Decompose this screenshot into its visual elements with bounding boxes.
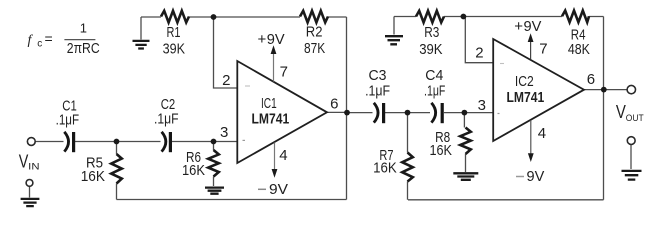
svg-text:9V: 9V	[267, 31, 285, 48]
svg-text:=: =	[45, 31, 53, 47]
svg-text:c: c	[37, 39, 42, 50]
svg-text:V: V	[19, 152, 29, 172]
svg-text:IN: IN	[28, 162, 39, 173]
svg-text:1: 1	[80, 20, 87, 35]
svg-text:OUT: OUT	[626, 113, 644, 123]
svg-text:48K: 48K	[568, 41, 590, 58]
svg-text:4: 4	[279, 147, 287, 164]
svg-text:16K: 16K	[81, 168, 105, 185]
svg-text:R3: R3	[424, 24, 439, 41]
svg-text:LM741: LM741	[252, 111, 290, 128]
svg-text:2: 2	[475, 45, 483, 62]
svg-text:.1μF: .1μF	[424, 83, 445, 100]
svg-text:.1μF: .1μF	[154, 111, 179, 128]
svg-text:9V: 9V	[524, 18, 542, 35]
svg-text:LM741: LM741	[507, 89, 545, 106]
svg-text:IC1: IC1	[261, 95, 277, 112]
svg-text:39K: 39K	[419, 41, 442, 58]
svg-text:V: V	[616, 102, 626, 122]
svg-text:+: +	[258, 31, 267, 48]
svg-text:IC2: IC2	[515, 73, 534, 90]
svg-text:+: +	[514, 18, 523, 35]
svg-text:R1: R1	[167, 24, 181, 41]
svg-text:87K: 87K	[304, 40, 325, 57]
svg-text:9V: 9V	[527, 168, 545, 185]
svg-text:6: 6	[587, 71, 595, 88]
svg-text:16K: 16K	[182, 162, 205, 179]
svg-text:.1μF: .1μF	[56, 112, 80, 129]
svg-text:6: 6	[330, 95, 338, 112]
svg-text:2πRC: 2πRC	[67, 41, 100, 57]
svg-text:.1μF: .1μF	[365, 83, 390, 100]
svg-text:39K: 39K	[163, 40, 185, 57]
svg-text:3: 3	[478, 97, 486, 114]
svg-text:3: 3	[220, 124, 228, 141]
svg-text:2: 2	[222, 72, 230, 89]
svg-text:16K: 16K	[430, 142, 453, 159]
svg-text:16K: 16K	[373, 160, 397, 177]
svg-text:7: 7	[539, 41, 547, 58]
svg-text:R2: R2	[306, 23, 323, 40]
svg-text:4: 4	[538, 125, 546, 142]
svg-text:7: 7	[280, 64, 288, 81]
svg-text:9V: 9V	[269, 181, 288, 198]
